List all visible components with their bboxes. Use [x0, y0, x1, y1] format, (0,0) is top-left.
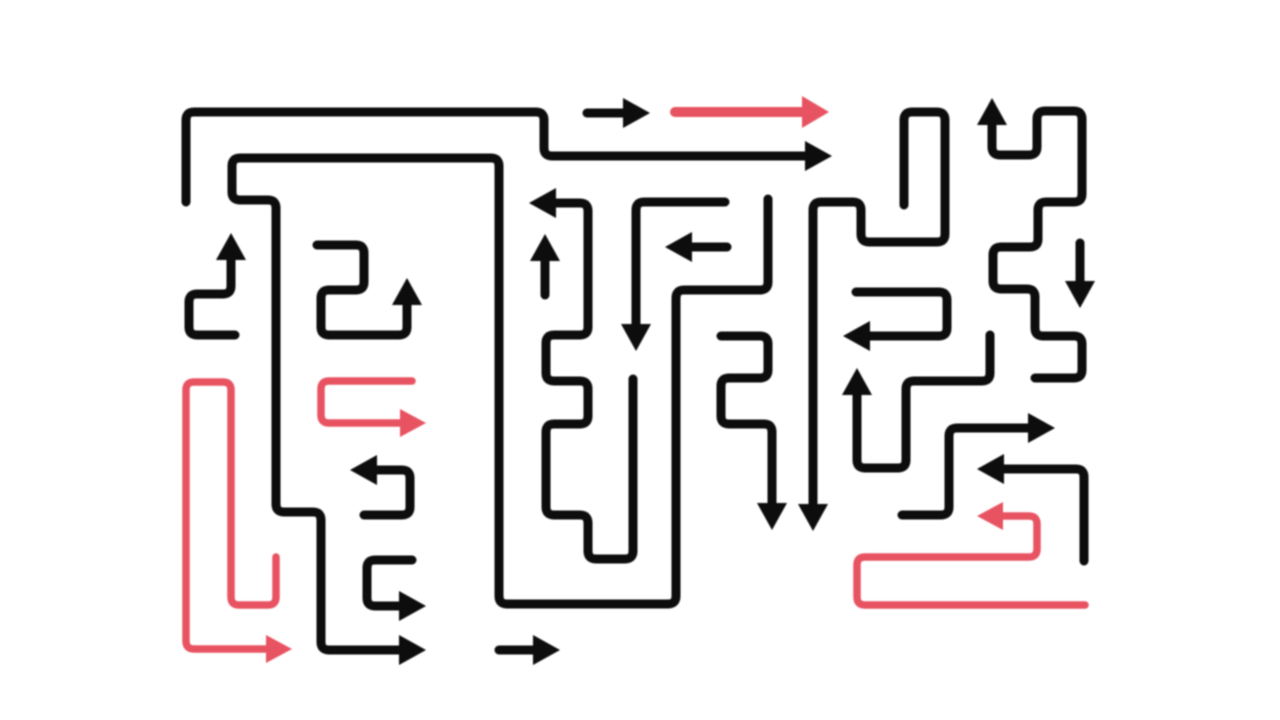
arrow: lone up-arrow mid-left of center — [541, 259, 550, 295]
red arrow: long top right-arrow — [675, 107, 804, 117]
wire: right-mid hook with up-arrow — [857, 335, 990, 468]
arrow: stepped up-arrow left — [189, 258, 235, 335]
wire: top-left frame ending in long right arrow — [186, 112, 807, 202]
arrow: small top right-arrow — [587, 109, 625, 118]
wire: hook with right-arrow mid-right — [902, 428, 1030, 515]
wire: long outer path ending in bottom right-arrow — [232, 158, 768, 650]
wire: top bar with long down-arrow — [636, 202, 725, 326]
wire: U-shape top right with long down-arrow — [813, 112, 945, 506]
red wire: C-shape with right-arrow — [321, 381, 412, 423]
wire: left-arrow with tail bottom-right — [1002, 469, 1084, 561]
wire: hook with right-arrow bottom-left — [367, 560, 412, 606]
arrow: lone down-arrow right — [1076, 243, 1085, 283]
wire: top-right staircase with up-arrow — [992, 111, 1082, 378]
red wire: bottom-right loop with left-arrow — [857, 516, 1085, 605]
arrow: S-shape with up-arrow — [317, 245, 407, 335]
red wire: tall left loop with right-arrow — [186, 382, 276, 649]
arrow: small left-arrow center — [690, 243, 727, 252]
wire: C-shape with long left-arrow — [856, 292, 947, 336]
wire: zig-zag with down-arrow center-right — [721, 336, 772, 505]
arrow: small bottom right-arrow — [499, 646, 535, 655]
wire: central zig-zag column with left hook arrow — [546, 203, 633, 559]
arrow: left hook arrow mid-left — [364, 470, 410, 515]
